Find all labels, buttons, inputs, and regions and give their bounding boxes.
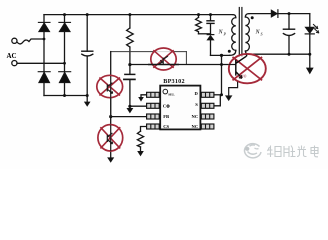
- node AC-L junction: [43, 38, 46, 41]
- diode D1 bridge top-left: [38, 22, 50, 31]
- ground below Q2: [110, 151, 112, 158]
- watermark logo: [245, 144, 261, 158]
- node secondary gnd tap: [308, 53, 311, 56]
- capacitor C3 clamp: [210, 15, 212, 21]
- capacitor C2 comp: [129, 65, 131, 75]
- wire AC line L with squiggle: [17, 39, 44, 44]
- snubber: wire RC top taps: [198, 15, 200, 18]
- wire Q4 base lead: [229, 64, 236, 66]
- wire Q4 emitter to ground: [229, 82, 238, 96]
- pin 5 NC: [201, 124, 214, 129]
- node bus-R3: [197, 13, 200, 16]
- diode D5 clamp: [207, 34, 214, 36]
- wire base rail: [130, 64, 229, 66]
- wire AC line N: [17, 62, 65, 64]
- ground secondary: [309, 54, 311, 68]
- wire drain link: [211, 54, 230, 56]
- capacitor C1 bulk electrolytic: [86, 15, 88, 52]
- node bottom bus C1: [86, 94, 89, 97]
- resistor R1 startup: [129, 15, 131, 28]
- svg-text:BP3102: BP3102: [163, 78, 184, 85]
- svg-text:S: S: [195, 102, 198, 107]
- node primary polarity dot: [228, 50, 231, 53]
- LED D7: [309, 14, 311, 28]
- node bus-D2: [63, 13, 66, 16]
- svg-text:AC: AC: [7, 52, 17, 60]
- pin boxes left: [147, 92, 214, 129]
- pin 6 NC: [201, 114, 214, 119]
- pin 4 CS: [147, 124, 160, 129]
- node R1-base rail: [128, 63, 131, 66]
- svg-text:CS: CS: [163, 124, 169, 129]
- char 电: [311, 146, 318, 157]
- ground primary main: [86, 96, 88, 103]
- char 光: [297, 146, 307, 157]
- char 胜: [284, 146, 296, 158]
- transformer T1 primary winding: [233, 15, 236, 18]
- pin 7 S: [201, 103, 214, 108]
- watermark text 铂胜光电: [267, 146, 318, 158]
- svg-text:FB: FB: [163, 114, 169, 119]
- ground CS resistor: [138, 151, 143, 155]
- IC pin labels: [163, 91, 199, 129]
- transistor Q1 (crossed out, upper-left): [97, 75, 123, 117]
- node bus-C1: [86, 13, 89, 16]
- node FB tap: [109, 115, 112, 118]
- node bus-R1: [128, 13, 131, 16]
- svg-text:S: S: [261, 32, 263, 37]
- transistor Q2 (crossed out, lower-left): [98, 125, 123, 151]
- wire Q1 column: [110, 52, 112, 151]
- wire drain pin 2: [214, 95, 220, 106]
- ground Q4 emitter: [226, 96, 232, 101]
- LED emission arrows: [313, 24, 318, 33]
- transformer T1 secondary winding: [245, 14, 249, 17]
- pin 3 FB: [147, 114, 160, 119]
- capacitor C4 output: [288, 14, 290, 29]
- wire secondary top rail: [249, 13, 310, 15]
- diode D2 bridge top-right: [59, 22, 71, 31]
- wire bridge left column: [43, 15, 45, 96]
- pin 8 D: [201, 92, 214, 97]
- wire drain pin 1: [214, 94, 222, 96]
- IC U1 BP3102 body: [160, 86, 200, 130]
- ground comp: [129, 106, 131, 108]
- node pin D junction: [220, 93, 223, 96]
- node secondary cap tap top: [288, 12, 291, 15]
- node COMP tap: [128, 105, 131, 108]
- svg-text:P: P: [223, 32, 227, 37]
- wire COMP rail: [130, 105, 147, 107]
- diode D3 bridge bottom-left: [38, 72, 50, 83]
- diode D6 output rectifier: [271, 10, 277, 17]
- svg-text:Q1\0: Q1\0: [238, 74, 246, 79]
- node gate-base junction: [220, 63, 223, 66]
- wire secondary bottom rail: [249, 53, 310, 55]
- resistor R3 clamp: [196, 17, 202, 33]
- node secondary polarity dot: [251, 16, 254, 19]
- svg-text:C⊕: C⊕: [163, 103, 170, 108]
- svg-text:SEL: SEL: [168, 92, 175, 96]
- ground GND pin: [139, 97, 143, 101]
- wire GND pin stub: [141, 95, 147, 98]
- AC terminal top: [12, 38, 17, 43]
- svg-text:NC: NC: [192, 114, 199, 119]
- node secondary cap tap bottom: [288, 53, 291, 56]
- char 铂: [267, 146, 281, 158]
- pin box hatches: [151, 92, 210, 129]
- transformer core: [238, 8, 240, 57]
- wire FB rail: [111, 116, 147, 118]
- node drain junction: [220, 54, 223, 57]
- transistor Q4 power (crossed out, at transformer): [229, 54, 266, 83]
- node bottom bus D4: [63, 94, 66, 97]
- transistor Q3 (crossed out, above IC): [148, 48, 179, 70]
- pin 2 COMP: [147, 103, 160, 108]
- wire bridge right column: [64, 15, 66, 96]
- AC terminal bottom: [12, 61, 17, 66]
- pin 1 GND: [147, 92, 160, 97]
- diode D4 bridge bottom-right: [59, 72, 71, 83]
- node bus-C3: [209, 13, 212, 16]
- node AC-N junction: [63, 62, 66, 65]
- wire RC bottom join: [199, 33, 211, 35]
- resistor R2 CS: [141, 127, 147, 132]
- wire bottom bus: [44, 95, 87, 97]
- wire top DC bus: [44, 14, 233, 16]
- wire VCC drop: [185, 52, 187, 65]
- svg-text:NC: NC: [192, 124, 199, 129]
- wire gate riser: [221, 55, 223, 94]
- pin 1 indicator: [163, 89, 168, 94]
- wire VCC top link: [111, 51, 187, 53]
